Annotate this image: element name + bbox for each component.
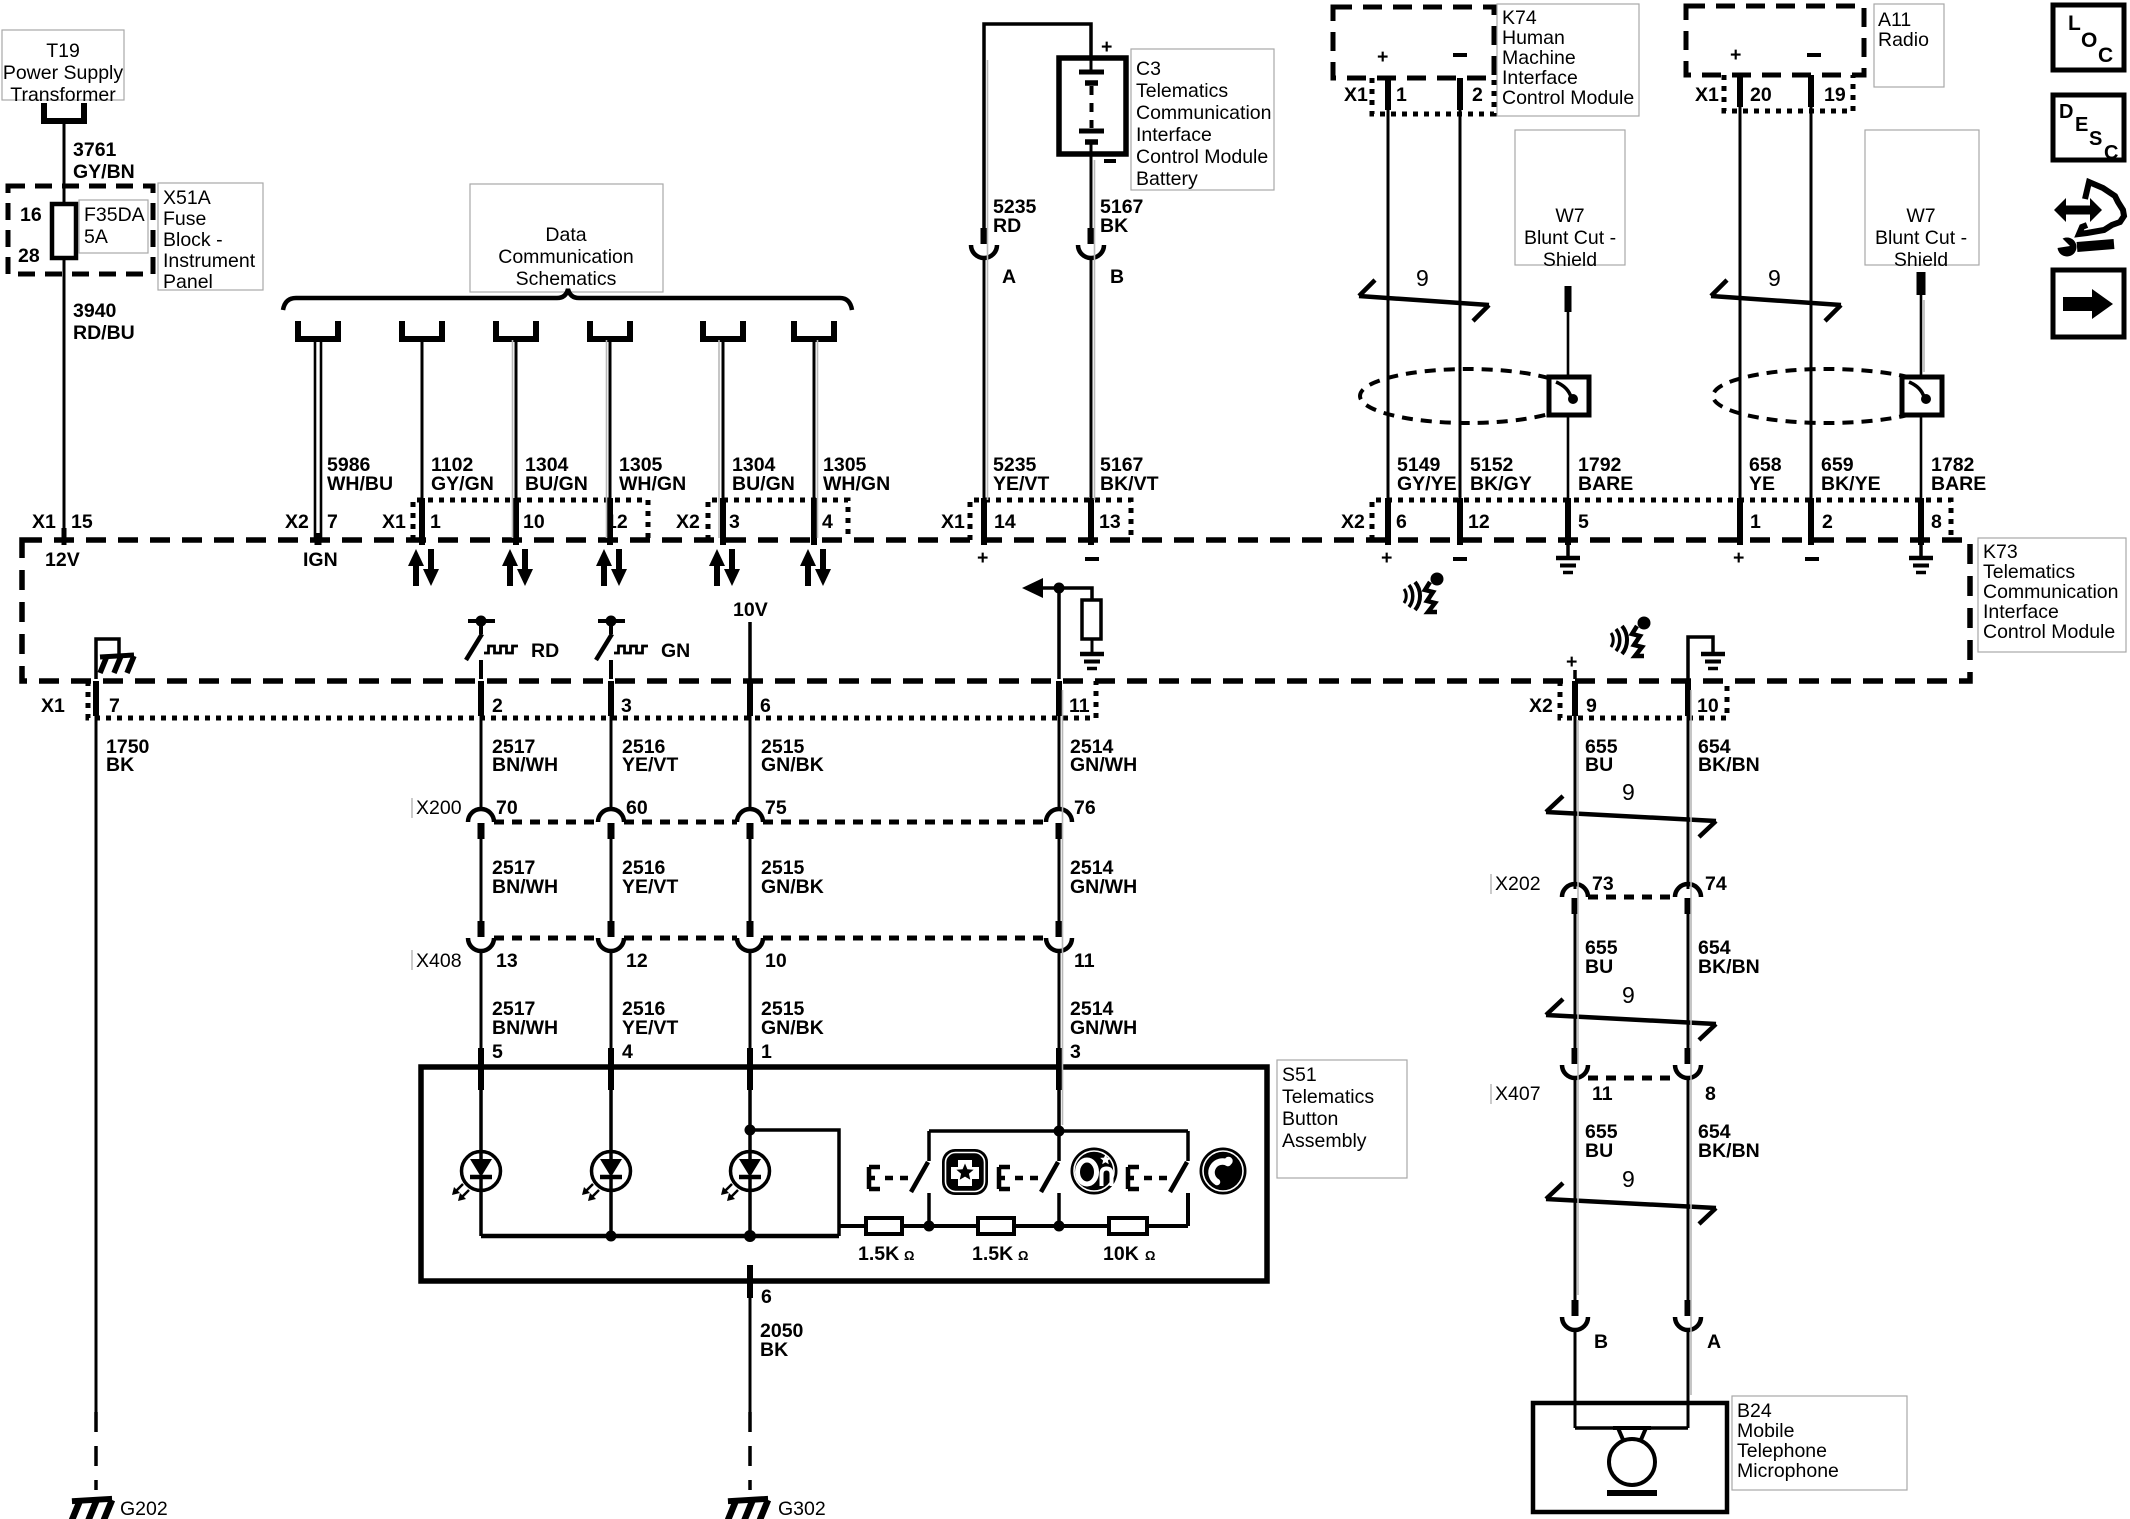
svg-text:YE/VT: YE/VT (622, 754, 678, 776)
svg-text:W7: W7 (1555, 205, 1584, 227)
wire 2515 GN/BK segment 3 (750, 951, 824, 1048)
ground G302 (728, 1498, 826, 1519)
svg-text:X2: X2 (676, 511, 700, 533)
module A11 dashed box (1686, 6, 1864, 75)
svg-text:4: 4 (822, 511, 833, 533)
blunt cut terminal W7 left (1565, 286, 1572, 312)
wire 1304 BU/GN (723, 339, 795, 540)
svg-text:Blunt Cut -: Blunt Cut - (1875, 227, 1967, 249)
svg-text:BK/BN: BK/BN (1698, 754, 1760, 776)
svg-text:9: 9 (1622, 1166, 1635, 1192)
module S51 Telematics Button Assembly box (421, 1067, 1267, 1281)
twisted pair marker mic 1 (1546, 779, 1716, 837)
pin stub 13 (1088, 498, 1094, 545)
inline connector A (971, 228, 1016, 288)
svg-text:1: 1 (1750, 511, 1761, 533)
svg-text:73: 73 (1592, 873, 1614, 895)
wire 5149 GY/YE (1388, 110, 1457, 500)
svg-text:X1: X1 (382, 511, 406, 533)
inline connector X200 pin 60 (598, 797, 648, 839)
wire 2516 YE/VT segment 2 (611, 839, 678, 921)
svg-text:X408: X408 (416, 950, 462, 972)
icon LOC box (2053, 5, 2124, 70)
svg-text:+: + (1566, 651, 1577, 673)
off-page connector above wire 1304 (493, 321, 539, 339)
LED cathode bus (481, 1230, 839, 1242)
pin stub x1575 (1572, 681, 1578, 716)
bidirectional data arrows (800, 549, 831, 586)
svg-text:Radio: Radio (1878, 29, 1929, 51)
shield clamp box right (1902, 377, 1942, 415)
svg-text:+: + (1730, 44, 1741, 66)
svg-text:Fuse: Fuse (163, 208, 206, 230)
svg-text:Shield: Shield (1543, 249, 1597, 271)
wire to G302 dashed (748, 1412, 752, 1490)
svg-text:G302: G302 (778, 1498, 826, 1519)
svg-text:Power Supply: Power Supply (3, 62, 124, 84)
svg-text:RD/BU: RD/BU (73, 322, 135, 344)
svg-text:Transformer: Transformer (10, 84, 116, 106)
svg-text:T19: T19 (46, 40, 80, 62)
connector name label ticks (412, 798, 1491, 1104)
pin stub x96 K73 bottom (93, 681, 99, 716)
K73 minus under pin 12 (1453, 557, 1467, 561)
svg-text:B: B (1110, 266, 1124, 288)
wire 659 BK/YE (1811, 107, 1881, 500)
label Data Communication Schematics (470, 184, 663, 292)
svg-text:70: 70 (496, 797, 518, 819)
wire 1304 BU/GN (516, 339, 588, 540)
svg-text:12: 12 (626, 950, 648, 972)
inline connector A (1675, 1300, 1721, 1353)
svg-text:B: B (1594, 1331, 1608, 1353)
svg-text:12: 12 (1468, 511, 1490, 533)
K73 speaker icon left (1404, 573, 1444, 613)
OnStar button icon (1071, 1148, 1118, 1195)
off-page connector above wire 5986 (295, 321, 341, 339)
wire 1750 BK (96, 716, 150, 1412)
svg-text:Shield: Shield (1894, 249, 1948, 271)
svg-text:Button: Button (1282, 1108, 1338, 1130)
svg-text:Telematics: Telematics (1136, 80, 1228, 102)
svg-text:BK/BN: BK/BN (1698, 1140, 1760, 1162)
svg-text:Panel: Panel (163, 271, 213, 293)
svg-text:X202: X202 (1495, 873, 1541, 895)
pin stub x723 (720, 498, 726, 545)
svg-text:GN: GN (661, 640, 690, 662)
off-page connector above wire 1305 (587, 321, 633, 339)
inline connector X202 pin 73 (1562, 873, 1614, 914)
X202 dashed link (1588, 895, 1675, 900)
svg-text:3: 3 (621, 695, 632, 717)
svg-text:Block -: Block - (163, 229, 223, 251)
svg-text:GN/WH: GN/WH (1070, 876, 1137, 898)
wire 2514 GN/WH segment 3 (1059, 951, 1137, 1048)
label K73 Telematics Communication Interface Control Module (1978, 538, 2126, 652)
inline connector X202 pin 74 (1675, 873, 1727, 914)
pin stub x1688 (1685, 681, 1691, 716)
off-page connector above wire 1305 (791, 321, 837, 339)
svg-text:BU: BU (1585, 956, 1613, 978)
svg-text:Schematics: Schematics (516, 268, 617, 290)
inline connector X200 pin 75 (737, 797, 787, 839)
blunt cut terminal W7 right (1917, 272, 1926, 295)
label B24 Mobile Telephone Microphone (1732, 1396, 1907, 1490)
K73 PWM output switch RD (466, 616, 559, 663)
twisted pair marker mic 2 (1546, 982, 1716, 1040)
svg-text:1: 1 (761, 1041, 772, 1063)
transformer T19 off-page connector (41, 103, 87, 121)
svg-text:O: O (2081, 29, 2097, 52)
connector X2 dotted box (pins 3 4) (708, 500, 848, 540)
drain wire 1782 (1920, 295, 1923, 377)
svg-text:K73: K73 (1983, 541, 2018, 563)
label W7 Blunt Cut - Shield (right) (1865, 130, 1979, 271)
resistor R3 10K (1103, 1218, 1155, 1265)
switch S51-2 (1041, 1131, 1059, 1226)
svg-text:4: 4 (622, 1041, 633, 1063)
svg-text:10: 10 (523, 511, 545, 533)
svg-text:28: 28 (18, 245, 40, 267)
wire 2514 GN/WH segment 2 (1059, 839, 1137, 921)
drain wire 1792 (1567, 312, 1570, 377)
svg-text:A11: A11 (1878, 9, 1911, 31)
svg-text:Ω: Ω (1145, 1248, 1155, 1263)
bidirectional data arrows (502, 549, 533, 586)
svg-text:3761: 3761 (73, 139, 117, 161)
svg-text:10K: 10K (1103, 1243, 1139, 1265)
connector X2 dotted box (pins 9 10) (1560, 681, 1727, 718)
svg-text:Interface: Interface (1983, 601, 2059, 623)
fuse F35DA 5A (52, 200, 148, 258)
svg-text:BK/GY: BK/GY (1470, 473, 1532, 495)
pin stub K74-1 (1385, 78, 1391, 110)
svg-text:2: 2 (492, 695, 503, 717)
svg-text:Assembly: Assembly (1282, 1130, 1367, 1152)
svg-text:YE: YE (1749, 473, 1775, 495)
svg-text:9: 9 (1416, 265, 1429, 291)
svg-text:13: 13 (496, 950, 518, 972)
icon arrow box (2053, 270, 2124, 337)
svg-text:10V: 10V (733, 599, 768, 621)
K73 internal mic ground (1688, 637, 1725, 679)
off-page connector above wire 1304 (700, 321, 746, 339)
wire 5986 WH/BU (315, 339, 393, 540)
svg-text:7: 7 (327, 511, 338, 533)
svg-text:RD: RD (531, 640, 559, 662)
resistor R1 1.5K (858, 1218, 914, 1265)
pin stub x610 (607, 498, 613, 545)
pin stub K74-2 (1457, 78, 1463, 110)
faint scan artifact lines (513, 60, 1925, 1395)
wire 1305 WH/GN (814, 339, 890, 540)
wire 1102 GY/GN (422, 339, 494, 540)
pin 5 S51 (481, 1041, 503, 1090)
svg-text:GY/GN: GY/GN (431, 473, 494, 495)
shield oval left (1360, 369, 1576, 423)
twisted pair marker mic 3 (1546, 1166, 1716, 1224)
pin stub x1811 K73 top (1808, 498, 1814, 545)
wire 2517 BN/WH segment 1 (481, 716, 558, 809)
pin1 feed rail (745, 1125, 840, 1237)
svg-text:S51: S51 (1282, 1064, 1317, 1086)
battery minus label (1104, 159, 1116, 163)
svg-text:Blunt Cut -: Blunt Cut - (1524, 227, 1616, 249)
K73 internal ground wire (96, 639, 119, 679)
svg-text:Telematics: Telematics (1983, 561, 2075, 583)
svg-text:RD: RD (993, 215, 1021, 237)
X200 dashed links (494, 820, 1046, 825)
pin 3 S51 (1059, 1041, 1081, 1090)
svg-text:WH/GN: WH/GN (619, 473, 686, 495)
svg-text:BK/BN: BK/BN (1698, 956, 1760, 978)
brace data communication bus (283, 289, 852, 310)
svg-text:BU/GN: BU/GN (732, 473, 795, 495)
svg-text:11: 11 (1074, 950, 1095, 972)
svg-text:Interface: Interface (1502, 67, 1578, 89)
pin stub x1568 K73 top (1565, 498, 1571, 545)
pin stub A11-20 (1737, 75, 1743, 107)
svg-text:YE/VT: YE/VT (622, 876, 678, 898)
wire to G202 dashed (94, 1412, 98, 1490)
pin stub x814 (811, 498, 817, 545)
svg-text:K74: K74 (1502, 7, 1537, 29)
wire 2515 GN/BK segment 1 (750, 716, 824, 809)
LED 1 (452, 1090, 501, 1236)
wire 654 BK/BN segment 3 (1688, 1078, 1760, 1300)
svg-text:14: 14 (994, 511, 1016, 533)
svg-text:+: + (1101, 36, 1112, 58)
first aid button icon (942, 1149, 988, 1195)
svg-text:X2: X2 (1341, 511, 1365, 533)
svg-text:10: 10 (1697, 695, 1719, 717)
svg-text:X1: X1 (941, 511, 965, 533)
drain wire 1792 BARE (1568, 415, 1633, 500)
svg-text:A: A (1002, 266, 1016, 288)
inline connector X408 pin 10 (737, 921, 787, 972)
shield oval right (1713, 369, 1941, 423)
wire 654 BK/BN segment 2 (1688, 914, 1760, 1048)
wire 2516 YE/VT segment 3 (611, 951, 678, 1048)
svg-text:Ω: Ω (904, 1248, 914, 1263)
svg-text:74: 74 (1705, 873, 1727, 895)
connector X2 dotted box (pins 6 12 5 1 2 8) (1372, 500, 1951, 540)
svg-text:20: 20 (1750, 84, 1772, 106)
pin stub x422 (419, 498, 425, 545)
wire 5167 BK/VT (1091, 258, 1159, 500)
svg-text:Control Module: Control Module (1502, 87, 1634, 109)
svg-text:8: 8 (1931, 511, 1942, 533)
svg-text:19: 19 (1824, 84, 1846, 106)
LED 3 (721, 1090, 770, 1236)
inline connector B (1562, 1300, 1608, 1353)
svg-text:GY/BN: GY/BN (73, 161, 135, 183)
svg-text:6: 6 (760, 695, 771, 717)
shield clamp box left (1549, 377, 1589, 415)
svg-text:E: E (2075, 114, 2088, 136)
LED 2 (582, 1090, 631, 1236)
svg-text:GN/BK: GN/BK (761, 1017, 824, 1039)
bidirectional data arrows (709, 549, 740, 586)
svg-text:BN/WH: BN/WH (492, 1017, 558, 1039)
wire 2517 BN/WH segment 3 (481, 951, 558, 1048)
svg-text:7: 7 (109, 695, 120, 717)
svg-text:W7: W7 (1906, 205, 1935, 227)
inline connector X408 pin 12 (598, 921, 648, 972)
wire 1305 WH/GN (610, 339, 686, 540)
microphone symbol (1575, 1428, 1688, 1493)
pin stub x1740 K73 top (1737, 498, 1743, 545)
svg-text:BU: BU (1585, 754, 1613, 776)
wire pin 11 internal (1057, 588, 1061, 679)
battery feed minus (1085, 557, 1099, 561)
pin X1 15 (32, 511, 93, 545)
inline connector X408 pin 13 (468, 921, 518, 972)
inline connector B (1078, 228, 1124, 288)
svg-text:GN/WH: GN/WH (1070, 1017, 1137, 1039)
svg-text:12V: 12V (45, 549, 80, 571)
connector X1 dotted box (pins 20 19) (1724, 75, 1853, 111)
svg-text:3: 3 (729, 511, 740, 533)
svg-text:15: 15 (71, 511, 93, 533)
svg-text:2: 2 (1472, 84, 1483, 106)
svg-text:2: 2 (1822, 511, 1833, 533)
svg-text:1.5K: 1.5K (972, 1243, 1013, 1265)
wire 655 BU segment 3 (1575, 1078, 1618, 1300)
wire 655 BU segment 2 (1575, 914, 1618, 1048)
svg-text:Communication: Communication (498, 246, 633, 268)
K74 minus (1453, 53, 1467, 57)
svg-text:13: 13 (1099, 511, 1121, 533)
svg-text:X2: X2 (285, 511, 309, 533)
wire 5235 RD (984, 196, 1037, 237)
pin stub x611 K73 bottom (608, 681, 614, 716)
svg-text:X1: X1 (1344, 84, 1368, 106)
switch S51-1 (911, 1131, 929, 1226)
signal rail pin3 (929, 1090, 1188, 1137)
label X51A Fuse Block - Instrument Panel (158, 183, 263, 293)
svg-text:1: 1 (430, 511, 441, 533)
icon DESC box (2053, 95, 2124, 164)
wire 2517 BN/WH segment 2 (481, 839, 558, 921)
inline connector X407 pin 8 (1675, 1048, 1716, 1105)
svg-text:5A: 5A (84, 226, 108, 248)
label T19 Power Supply Transformer (2, 30, 124, 106)
svg-text:C: C (2098, 44, 2113, 67)
svg-text:X200: X200 (416, 797, 462, 819)
pin stub x1388 K73 top (1385, 498, 1391, 545)
wire battery positive top (984, 24, 1091, 230)
svg-text:Microphone: Microphone (1737, 1460, 1839, 1482)
pin 6 stub (750, 1265, 772, 1308)
pin stub x481 K73 bottom (478, 681, 484, 716)
pin stub x516 (513, 498, 519, 545)
svg-text:3: 3 (1070, 1041, 1081, 1063)
svg-text:5: 5 (492, 1041, 503, 1063)
switch actuator dashes E 1 (869, 1167, 909, 1189)
wire 5152 BK/GY (1460, 110, 1532, 500)
pin 1 S51 (750, 1041, 772, 1090)
svg-text:+: + (1377, 46, 1388, 68)
svg-text:1: 1 (1396, 84, 1407, 106)
svg-text:5: 5 (1578, 511, 1589, 533)
pin stub x1059 K73 bottom (1056, 681, 1062, 716)
wire 5167 BK (1091, 154, 1143, 237)
svg-text:Telematics: Telematics (1282, 1086, 1374, 1108)
wire 2514 GN/WH segment 1 (1059, 716, 1137, 809)
off-page connector above wire 1102 (399, 321, 445, 339)
svg-text:3940: 3940 (73, 300, 117, 322)
svg-text:Mobile: Mobile (1737, 1420, 1794, 1442)
svg-text:IGN: IGN (303, 549, 338, 571)
wire 654 BK/BN segment 1 (1688, 716, 1760, 889)
svg-text:B24: B24 (1737, 1400, 1772, 1422)
svg-text:Instrument: Instrument (163, 250, 256, 272)
module K73 Telematics Communication Interface Control Module dashed box (22, 540, 1970, 681)
wire 2515 GN/BK segment 2 (750, 839, 824, 921)
svg-text:G202: G202 (120, 1498, 168, 1519)
svg-text:9: 9 (1622, 779, 1635, 805)
svg-text:Control Module: Control Module (1136, 146, 1268, 168)
pin stub 14 (981, 498, 987, 545)
svg-text:9: 9 (1586, 695, 1597, 717)
X408 dashed links (494, 936, 1046, 941)
inline connector X408 pin 11 (1046, 921, 1095, 972)
svg-text:BK: BK (1100, 215, 1128, 237)
svg-text:11: 11 (1592, 1083, 1613, 1105)
svg-text:+: + (1381, 547, 1392, 569)
svg-text:+: + (977, 547, 988, 569)
svg-text:X51A: X51A (163, 187, 211, 209)
label C3 Telematics Communication Interface Control Module Battery (1131, 49, 1274, 190)
svg-text:X2: X2 (1529, 695, 1553, 717)
pin 4 S51 (611, 1041, 633, 1090)
inline connector X200 pin 70 (468, 797, 518, 839)
bidirectional data arrows (408, 549, 439, 586)
fuse block X51A dashed box (8, 186, 153, 274)
module B24 box (1533, 1403, 1727, 1512)
svg-text:6: 6 (761, 1286, 772, 1308)
svg-text:BK/VT: BK/VT (1100, 473, 1159, 495)
svg-text:Ω: Ω (1018, 1248, 1028, 1263)
svg-text:Human: Human (1502, 27, 1565, 49)
pin stub x1921 K73 top (1918, 498, 1924, 545)
svg-text:WH/BU: WH/BU (327, 473, 393, 495)
label A11 Radio (1874, 4, 1944, 87)
wire 2516 YE/VT segment 1 (611, 716, 678, 809)
svg-text:D: D (2059, 101, 2073, 123)
svg-text:A: A (1707, 1331, 1721, 1353)
pin stub x1460 K73 top (1457, 498, 1463, 545)
switch actuator dashes E 3 (1128, 1167, 1168, 1189)
pin stub A11-19 (1808, 75, 1814, 107)
wire 2050 BK (750, 1298, 804, 1412)
svg-text:6: 6 (1396, 511, 1407, 533)
wire mic B (1574, 1330, 1577, 1428)
svg-text:75: 75 (765, 797, 787, 819)
svg-text:1.5K: 1.5K (858, 1243, 899, 1265)
svg-text:YE/VT: YE/VT (622, 1017, 678, 1039)
wire 3761 GY/BN (64, 121, 135, 204)
svg-text:BU/GN: BU/GN (525, 473, 588, 495)
connector X1 dotted box (pins 7 2 3 6 11) (88, 681, 1096, 718)
resistor R2 1.5K (972, 1218, 1028, 1265)
icon diagnostic wrench (2051, 182, 2124, 257)
switch S51-3 (1170, 1131, 1188, 1226)
svg-text:F35DA: F35DA (84, 204, 145, 226)
svg-text:9: 9 (1768, 265, 1781, 291)
svg-text:X1: X1 (41, 695, 65, 717)
